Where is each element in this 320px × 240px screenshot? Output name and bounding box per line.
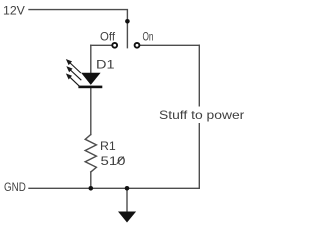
svg-text:Off: Off xyxy=(100,29,116,43)
svg-text:R1: R1 xyxy=(100,139,116,153)
svg-text:Stuff to power: Stuff to power xyxy=(159,108,244,122)
svg-text:510: 510 xyxy=(101,154,126,168)
svg-text:12V: 12V xyxy=(3,4,25,18)
svg-text:GND: GND xyxy=(4,180,26,194)
svg-text:D1: D1 xyxy=(96,57,115,71)
svg-text:On: On xyxy=(143,29,154,43)
